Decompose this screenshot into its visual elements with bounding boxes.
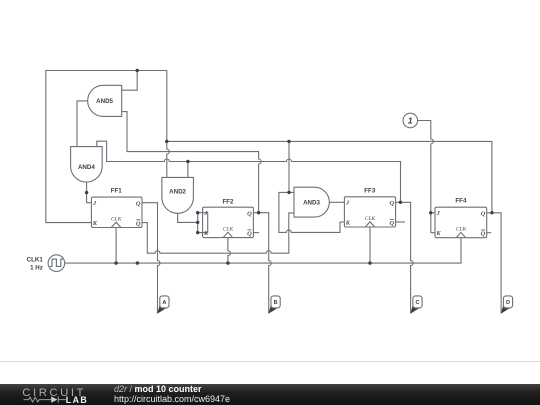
svg-text:FF3: FF3: [364, 187, 376, 194]
flip-flop FF4 box: [435, 207, 487, 238]
and-gate AND5 body (points left): [88, 85, 122, 116]
FF pin labels: [92, 200, 486, 238]
wire FF3 CLK: [369, 227, 371, 263]
svg-text:AND5: AND5: [96, 98, 113, 105]
junction AND3 in1: [287, 191, 290, 194]
svg-text:K: K: [435, 230, 441, 237]
wire AND3 in1 net from D, to FF3 K: [279, 141, 345, 232]
svg-text:LAB: LAB: [66, 395, 88, 405]
wire top loop / FF1 K net: [46, 71, 167, 223]
svg-text:Q: Q: [481, 231, 486, 238]
wire flag1 to FF4 J K: [418, 121, 435, 233]
junction FF4 Q: [490, 211, 493, 214]
junction clock rail FF1: [114, 261, 117, 264]
wire FF1 Qbar to AND3 in2: [142, 213, 294, 253]
flag 1 circle: [403, 113, 418, 128]
svg-text:B: B: [274, 300, 278, 306]
node B flag: [268, 296, 280, 314]
svg-text:AND2: AND2: [169, 189, 186, 196]
wire AND5 input1: [122, 71, 138, 91]
clock chevron FF1: [111, 222, 121, 227]
flip-flop FF2 box: [203, 207, 254, 237]
svg-text:Q: Q: [389, 200, 394, 207]
footer url text: [114, 394, 230, 404]
wire vertical x167 to AND2 in1: [167, 71, 170, 178]
svg-text:FF2: FF2: [222, 198, 234, 205]
svg-text:K: K: [345, 220, 351, 227]
svg-text:A: A: [162, 300, 166, 306]
footer bar: [0, 384, 540, 405]
svg-text:Q: Q: [389, 220, 394, 227]
svg-text:K: K: [92, 220, 98, 227]
wire AND2 output to FF2 JK bracket: [178, 213, 198, 222]
svg-text:CLK: CLK: [223, 227, 235, 233]
svg-text:1 Hz: 1 Hz: [30, 265, 43, 272]
wire net C (y161.5) AND4 in2 to FF3 Q: [97, 141, 401, 202]
clock source CLK1 circle: [48, 255, 65, 272]
junction clock rail FF2: [226, 261, 229, 264]
wire FF1 CLK: [115, 228, 117, 264]
clock chevron FF4: [456, 232, 466, 237]
wire AND4 output to FF1 J: [87, 182, 92, 203]
AND3 gate body (points right): [294, 187, 329, 217]
wire FF3 Q to flag C: [396, 202, 414, 313]
wire AND2 in2: [187, 162, 189, 178]
junction clock rail FF3: [368, 261, 371, 264]
CLK1 square wave glyph: [50, 259, 62, 266]
svg-text:CLK1: CLK1: [27, 256, 44, 263]
junction FF4 J: [429, 211, 432, 214]
wire AND3 output to FF3 J: [329, 201, 344, 203]
wire FF3 Qbar stub: [396, 221, 405, 223]
svg-text:FF1: FF1: [111, 187, 123, 194]
node D flag: [501, 296, 513, 314]
svg-text:C: C: [415, 300, 419, 306]
junction FF3 Q: [399, 201, 402, 204]
svg-text:AND3: AND3: [303, 200, 320, 207]
junction AND4 output: [85, 191, 88, 194]
AND4 gate body (points down): [71, 147, 103, 182]
wire FF2 Q to flag B: [253, 213, 271, 314]
AND2 gate body (points down): [162, 177, 194, 213]
footer title text: [114, 384, 202, 394]
svg-text:Q: Q: [136, 200, 141, 207]
wire FF2 Qbar stub: [253, 232, 259, 234]
divider line: [0, 361, 540, 362]
svg-text:CLK: CLK: [456, 227, 468, 233]
clock chevron FF2: [223, 232, 233, 237]
wire AND5 output to AND4: [77, 101, 88, 147]
svg-text:Q: Q: [247, 210, 252, 217]
junction FF2 K: [196, 231, 199, 234]
junction net C / AND2 in2: [186, 160, 189, 163]
svg-text:Q: Q: [481, 211, 486, 218]
svg-text:Q: Q: [247, 230, 252, 237]
svg-text:Q: Q: [136, 220, 141, 227]
wire FF4 Qbar stub: [487, 232, 492, 234]
svg-text:1: 1: [408, 116, 413, 126]
clock chevron FF3: [365, 222, 375, 227]
svg-text:FF4: FF4: [455, 198, 467, 205]
junction clock rail mid: [136, 261, 139, 264]
svg-text:AND4: AND4: [78, 164, 95, 171]
flip-flop FF1 box: [91, 197, 142, 227]
wire clock rail to FF4 CLK: [65, 238, 461, 263]
junction net D start: [165, 140, 168, 143]
wire FF2 CLK: [228, 238, 231, 264]
node A flag: [157, 296, 169, 314]
wire FF2 JK bracket (drawn over box): [198, 213, 208, 233]
junction FF2 J: [196, 211, 199, 214]
junction FF2 Q: [257, 211, 260, 214]
junction top line / AND5 in1: [136, 69, 139, 72]
wire FF1 Q to flag A: [142, 203, 160, 314]
svg-text:CLK: CLK: [111, 217, 123, 223]
svg-text:CLK: CLK: [365, 216, 377, 222]
svg-text:D: D: [506, 300, 510, 306]
junction FF2 JK mid: [196, 221, 199, 224]
wire AND5 input2 from FF2 Q: [122, 112, 261, 213]
flip-flop FF3 box: [344, 197, 395, 227]
svg-text:K: K: [203, 230, 209, 237]
wire net D (y141): [167, 141, 492, 212]
wire FF4 Q to flag D: [487, 213, 501, 314]
junction net D / AND3 branch: [287, 140, 290, 143]
CircuitLab logo: [0, 383, 100, 405]
node C flag: [410, 296, 422, 314]
